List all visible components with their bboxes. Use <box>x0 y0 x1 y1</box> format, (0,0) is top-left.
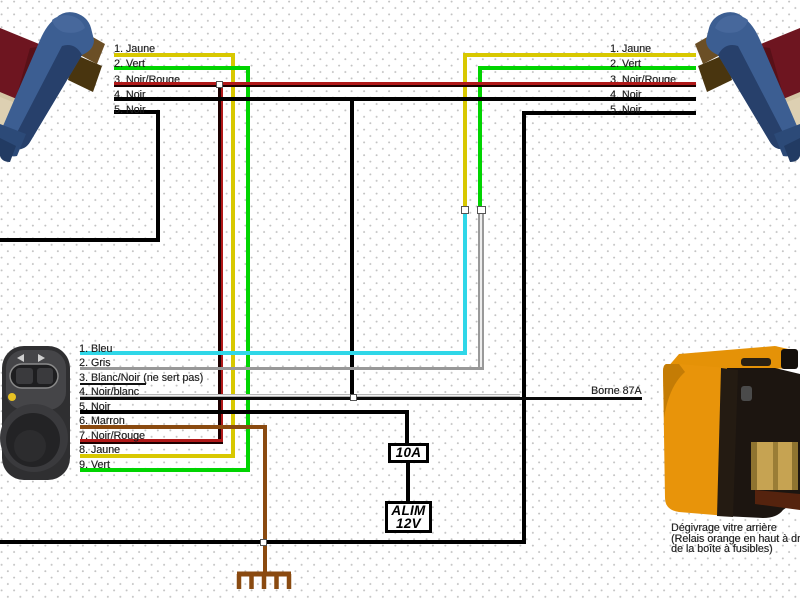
label: switch pin 3 <box>79 373 203 383</box>
label: right mirror pin 4 <box>610 90 641 100</box>
label: switch pin 1 <box>79 344 112 354</box>
label: switch pin 4 <box>79 387 139 397</box>
photo: orange relay <box>655 338 800 523</box>
wire: switch 2 Gris horizontal <box>80 367 482 370</box>
wire: right mirror 5 Noir horizontal <box>522 111 696 115</box>
label: left mirror pin 2 <box>114 59 145 69</box>
wire: vertical to 10A fuse <box>405 410 409 443</box>
label: right mirror pin 1 <box>610 44 651 54</box>
photo: left door mirror <box>0 0 112 168</box>
label: Borne 87A <box>591 386 642 396</box>
label: right mirror pin 2 <box>610 59 641 69</box>
label: switch pin 5 <box>79 402 110 412</box>
wire: 4 Noir horizontal both mirrors <box>114 97 696 101</box>
fuse box 10A <box>388 443 429 463</box>
wire: left mirror 2 Vert horizontal <box>114 66 250 70</box>
wire: right 5 Noir vertical <box>522 111 526 544</box>
handle: green/white joint <box>477 206 486 214</box>
label: left mirror pin 4 <box>114 90 145 100</box>
wire: switch 6 Marron horizontal <box>80 425 267 429</box>
handle: brown crossing bottom line <box>260 539 267 546</box>
wire: Noir/Rouge vertical black part <box>218 84 221 444</box>
ground symbol <box>235 571 295 593</box>
wire: switch 8 Jaune horizontal <box>80 454 235 458</box>
wire: switch 9 Vert horizontal <box>80 468 250 472</box>
label: switch pin 8 <box>79 445 120 455</box>
wire: cyan vertical (Bleu) <box>463 210 467 355</box>
label: left mirror pin 3 <box>114 75 180 85</box>
wire: switch 4 Noir/blanc line to Borne 87A <box>80 394 520 397</box>
wire: bottom Noir horizontal to left edge <box>0 540 526 544</box>
wire: left 5 Noir bottom horizontal to edge <box>0 238 160 242</box>
wire: switch 1 Bleu horizontal cyan <box>80 351 467 355</box>
photo: right door mirror <box>688 0 800 168</box>
handle: junction on Noir/Rouge line <box>216 81 223 88</box>
wire: right yellow vertical <box>463 53 467 210</box>
label: right mirror pin 5 <box>610 105 641 115</box>
wire: right mirror 1 Jaune horizontal <box>463 53 696 57</box>
caption: relay description <box>671 523 800 555</box>
wire: switch 7 Noir/Rouge horizontal black <box>80 442 223 445</box>
wire: 4 Noir vertical down to Borne junction <box>350 97 354 399</box>
photo: mirror control switch <box>0 342 75 482</box>
label: left mirror pin 1 <box>114 44 155 54</box>
label: switch pin 2 <box>79 358 110 368</box>
wire: 3 Noir/Rouge horizontal black part <box>114 85 696 87</box>
wire: left green vertical to switch pin 9 <box>246 66 250 472</box>
wire: 3 Noir/Rouge horizontal red part <box>114 82 696 85</box>
handle: Borne 87A junction <box>350 394 357 401</box>
wire: left 5 Noir vertical <box>156 110 160 242</box>
wire: left mirror 1 Jaune horizontal <box>114 53 235 57</box>
wire: white/gray vertical (Blanc) <box>478 210 484 370</box>
label: left mirror pin 5 <box>114 105 145 115</box>
label: switch pin 6 <box>79 416 125 426</box>
label: switch pin 9 <box>79 460 110 470</box>
label: switch pin 7 <box>79 431 145 441</box>
wire: 10A fuse to ALIM 12V vertical <box>406 463 410 501</box>
wire: switch 5 Noir thick horizontal <box>80 410 409 414</box>
handle: yellow/cyan joint <box>461 206 469 214</box>
wire: right mirror 2 Vert horizontal <box>478 66 696 70</box>
wire: Marron vertical to ground <box>263 425 267 573</box>
wire: switch 3 Blanc/Noir unused stub <box>80 383 146 385</box>
wire: left mirror 5 Noir horizontal <box>114 110 158 114</box>
wire: left yellow vertical to switch pin 8 <box>231 53 235 458</box>
wire: right green vertical <box>478 66 482 210</box>
label: right mirror pin 3 <box>610 75 676 85</box>
wire: Noir/Rouge vertical red part <box>221 84 224 444</box>
supply box ALIM 12V <box>385 501 432 533</box>
wire: switch 7 Noir/Rouge horizontal red <box>80 439 223 442</box>
